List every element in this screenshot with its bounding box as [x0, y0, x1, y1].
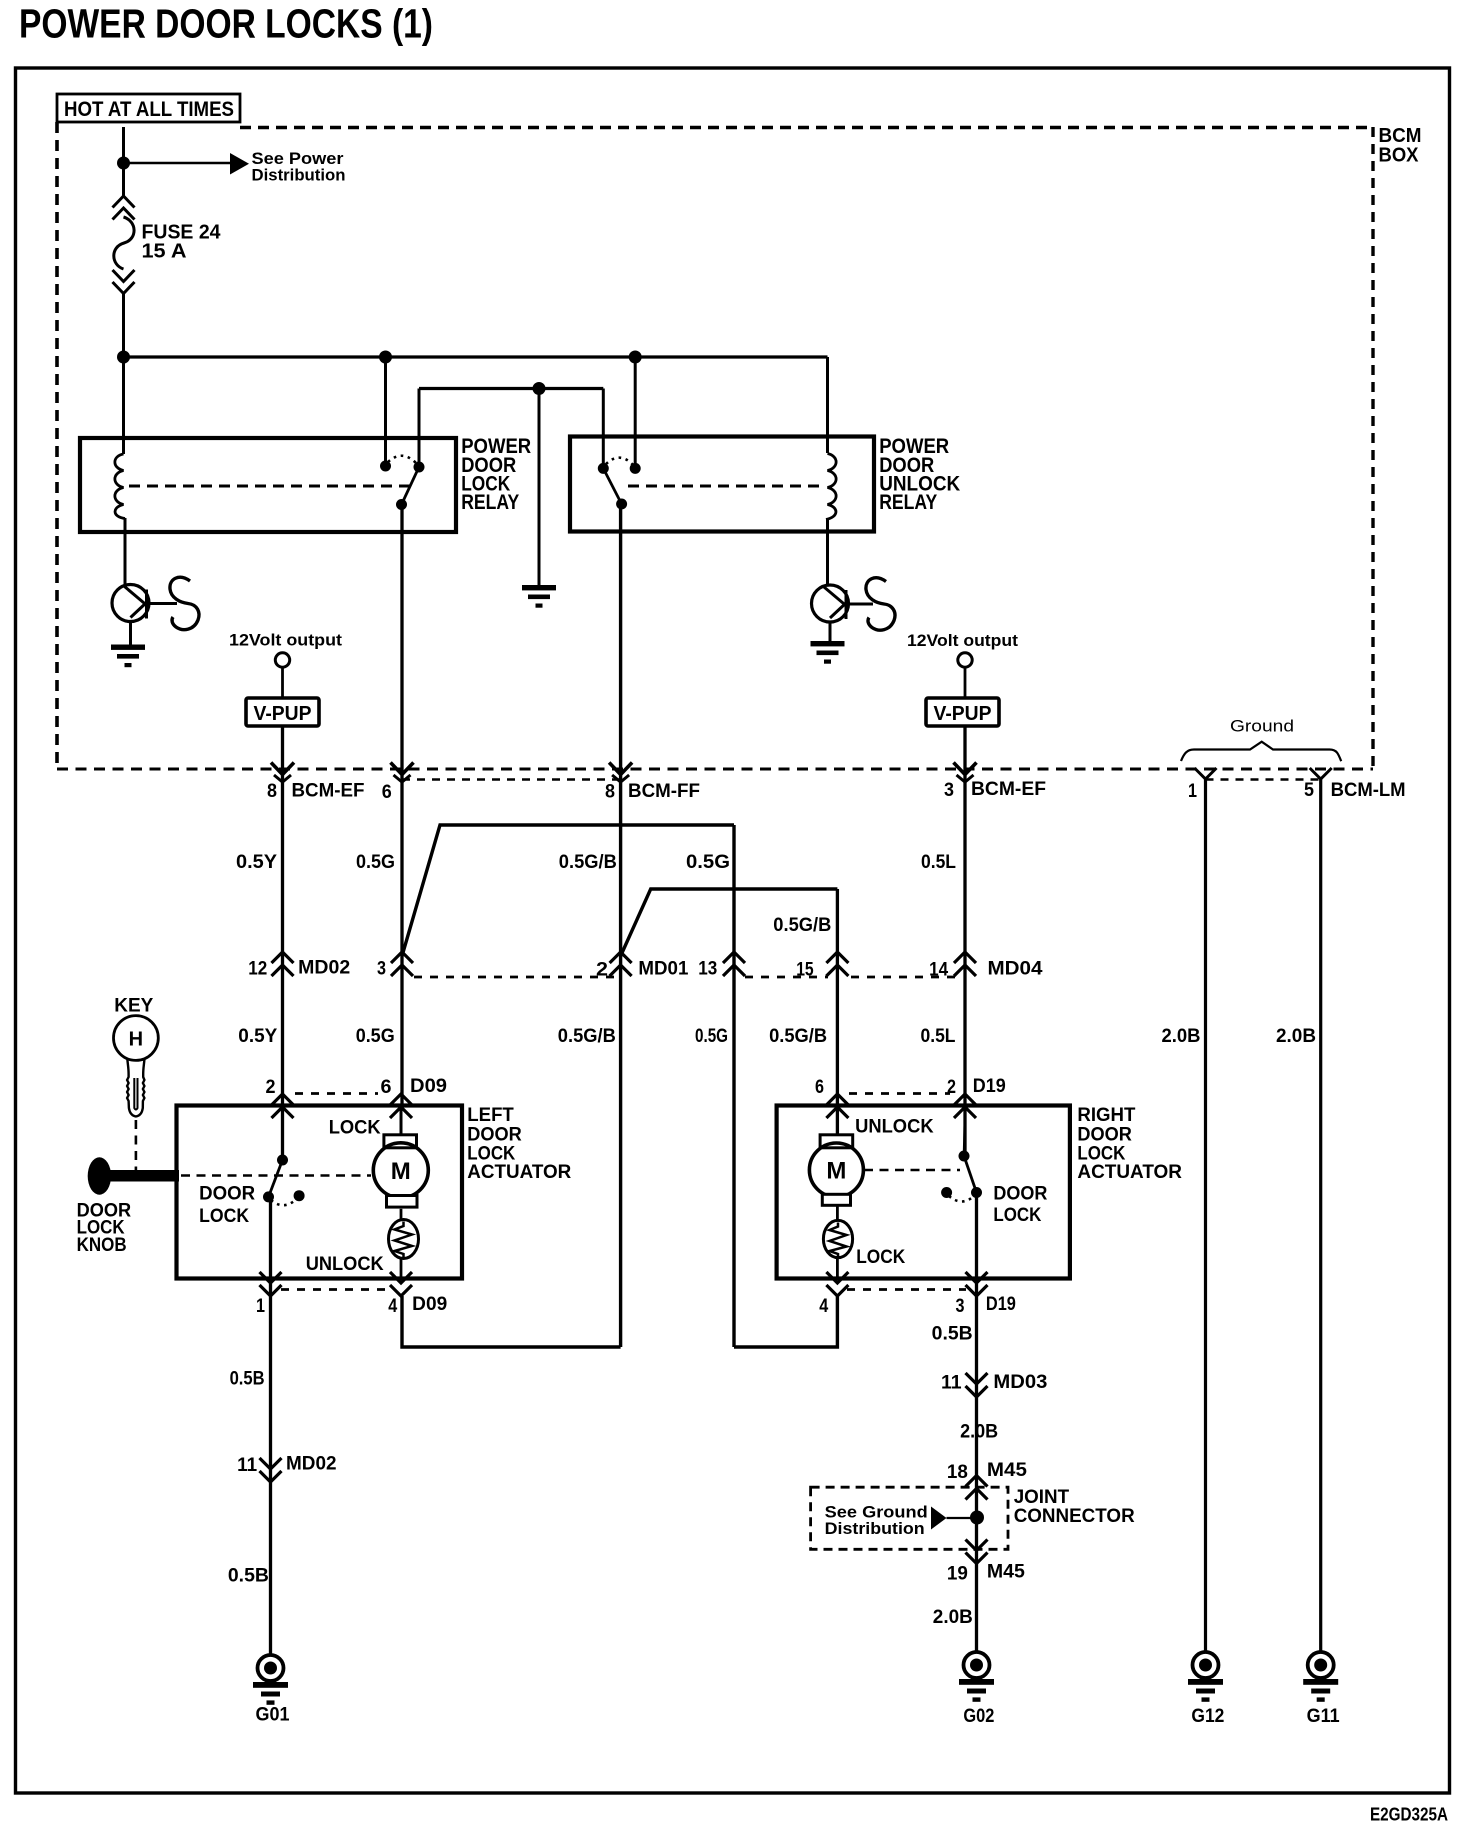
- svg-text:RELAY: RELAY: [879, 490, 937, 514]
- svg-text:2: 2: [947, 1077, 956, 1098]
- svg-text:LOCK: LOCK: [993, 1204, 1041, 1226]
- svg-text:DOOR: DOOR: [993, 1183, 1047, 1205]
- svg-text:0.5G/B: 0.5G/B: [559, 852, 617, 873]
- svg-text:G12: G12: [1191, 1706, 1224, 1727]
- svg-text:BOX: BOX: [1379, 145, 1420, 167]
- svg-text:0.5G: 0.5G: [695, 1026, 728, 1047]
- svg-text:ACTUATOR: ACTUATOR: [1077, 1161, 1182, 1183]
- svg-text:11: 11: [941, 1373, 962, 1394]
- svg-text:2.0B: 2.0B: [960, 1422, 998, 1443]
- svg-text:0.5G: 0.5G: [686, 852, 730, 873]
- svg-text:0.5G/B: 0.5G/B: [769, 1026, 827, 1047]
- svg-text:V-PUP: V-PUP: [934, 703, 992, 725]
- svg-text:CONNECTOR: CONNECTOR: [1014, 1506, 1135, 1527]
- svg-text:15 A: 15 A: [142, 241, 187, 263]
- svg-text:0.5Y: 0.5Y: [236, 852, 277, 873]
- svg-text:12Volt output: 12Volt output: [229, 631, 342, 650]
- svg-text:15: 15: [796, 960, 814, 981]
- svg-text:2.0B: 2.0B: [1162, 1026, 1201, 1047]
- svg-text:JOINT: JOINT: [1014, 1487, 1070, 1508]
- svg-text:5: 5: [1304, 780, 1314, 801]
- svg-text:3: 3: [944, 780, 954, 801]
- svg-text:0.5G: 0.5G: [356, 852, 395, 873]
- svg-text:6: 6: [815, 1077, 824, 1098]
- svg-text:2.0B: 2.0B: [1276, 1026, 1316, 1047]
- svg-text:2.0B: 2.0B: [933, 1607, 973, 1628]
- svg-text:V-PUP: V-PUP: [254, 703, 312, 725]
- svg-text:M45: M45: [987, 1460, 1027, 1481]
- svg-text:12: 12: [248, 959, 267, 980]
- svg-text:RELAY: RELAY: [461, 490, 519, 514]
- svg-text:G02: G02: [963, 1706, 994, 1727]
- svg-text:1: 1: [1188, 781, 1197, 802]
- svg-text:ACTUATOR: ACTUATOR: [467, 1161, 571, 1183]
- svg-text:UNLOCK: UNLOCK: [306, 1253, 384, 1275]
- svg-text:18: 18: [947, 1462, 968, 1483]
- svg-text:Distribution: Distribution: [825, 1520, 925, 1538]
- svg-text:M45: M45: [987, 1562, 1025, 1583]
- svg-text:BCM-EF: BCM-EF: [292, 781, 365, 802]
- svg-text:1: 1: [256, 1296, 265, 1317]
- svg-text:H: H: [129, 1029, 143, 1051]
- svg-text:0.5G/B: 0.5G/B: [773, 915, 831, 936]
- svg-text:See Ground: See Ground: [825, 1504, 928, 1522]
- svg-text:LOCK: LOCK: [329, 1117, 381, 1139]
- svg-text:MD02: MD02: [286, 1454, 337, 1475]
- svg-text:D19: D19: [973, 1076, 1006, 1097]
- svg-text:12Volt output: 12Volt output: [907, 631, 1018, 650]
- svg-text:0.5Y: 0.5Y: [238, 1026, 277, 1047]
- svg-text:See Power: See Power: [252, 150, 345, 168]
- svg-text:Distribution: Distribution: [252, 167, 346, 185]
- svg-text:3: 3: [956, 1296, 965, 1317]
- svg-text:14: 14: [929, 960, 948, 981]
- svg-text:6: 6: [382, 782, 392, 803]
- svg-text:0.5G: 0.5G: [356, 1026, 395, 1047]
- svg-text:19: 19: [947, 1564, 968, 1585]
- svg-text:6: 6: [381, 1077, 392, 1098]
- svg-text:0.5B: 0.5B: [228, 1566, 269, 1587]
- svg-text:BCM-FF: BCM-FF: [628, 781, 700, 802]
- svg-text:MD01: MD01: [638, 959, 688, 980]
- svg-text:0.5B: 0.5B: [932, 1324, 973, 1345]
- svg-text:LOCK: LOCK: [856, 1246, 905, 1268]
- svg-text:LOCK: LOCK: [199, 1205, 249, 1227]
- svg-text:UNLOCK: UNLOCK: [855, 1116, 934, 1138]
- svg-text:0.5L: 0.5L: [921, 852, 956, 873]
- svg-text:13: 13: [698, 959, 717, 980]
- svg-text:D09: D09: [412, 1294, 447, 1315]
- svg-text:0.5L: 0.5L: [921, 1026, 956, 1047]
- svg-text:2: 2: [266, 1077, 276, 1098]
- svg-text:KEY: KEY: [114, 996, 153, 1017]
- svg-text:KNOB: KNOB: [77, 1234, 127, 1256]
- svg-text:D09: D09: [410, 1076, 447, 1097]
- svg-text:BCM-LM: BCM-LM: [1331, 780, 1406, 801]
- svg-text:Ground: Ground: [1230, 718, 1294, 736]
- svg-text:MD03: MD03: [993, 1372, 1047, 1393]
- svg-text:E2GD325A: E2GD325A: [1370, 1805, 1448, 1825]
- svg-text:MD02: MD02: [298, 958, 350, 979]
- svg-text:3: 3: [377, 959, 386, 980]
- svg-text:4: 4: [388, 1296, 397, 1317]
- svg-text:DOOR: DOOR: [199, 1183, 255, 1205]
- svg-text:HOT AT ALL TIMES: HOT AT ALL TIMES: [64, 98, 234, 121]
- svg-text:11: 11: [237, 1455, 257, 1476]
- svg-text:0.5G/B: 0.5G/B: [558, 1026, 616, 1047]
- svg-text:8: 8: [605, 782, 615, 803]
- svg-text:G01: G01: [256, 1705, 290, 1726]
- svg-text:M: M: [391, 1158, 411, 1185]
- svg-text:D19: D19: [986, 1294, 1016, 1315]
- svg-text:G11: G11: [1307, 1706, 1340, 1727]
- svg-text:POWER DOOR LOCKS (1): POWER DOOR LOCKS (1): [19, 1, 433, 47]
- svg-text:BCM-EF: BCM-EF: [971, 779, 1046, 800]
- svg-text:4: 4: [819, 1296, 828, 1317]
- svg-text:M: M: [826, 1158, 846, 1185]
- svg-text:2: 2: [596, 960, 608, 981]
- svg-text:8: 8: [267, 781, 277, 802]
- svg-text:0.5B: 0.5B: [230, 1369, 265, 1390]
- svg-text:MD04: MD04: [988, 959, 1043, 980]
